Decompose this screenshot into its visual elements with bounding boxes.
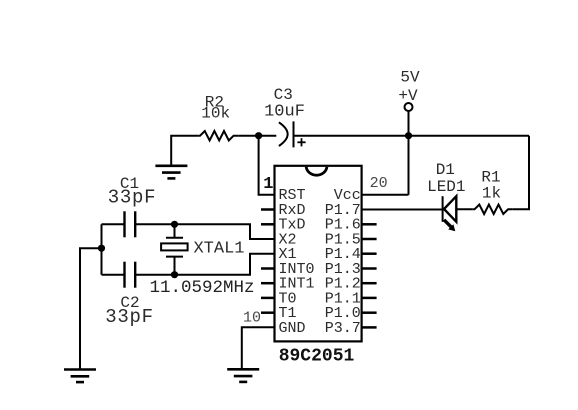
pin stub P1.2 xyxy=(362,282,377,285)
pin stub P1.3 xyxy=(362,267,377,270)
ground (below R2 left wire) xyxy=(155,166,187,179)
pin stub P1.5 xyxy=(362,238,377,241)
capacitor C1 xyxy=(125,211,136,237)
svg-text:5V: 5V xyxy=(400,68,420,86)
pin stub P1.0 xyxy=(362,311,377,314)
svg-text:89C2051: 89C2051 xyxy=(279,346,355,366)
node junction (crystal bottom) xyxy=(171,271,178,278)
C3 plus polarity mark xyxy=(297,138,305,146)
pin stub T0 xyxy=(261,297,275,300)
ground (below pin 10) xyxy=(227,369,259,382)
wire IC P1.7 to LED xyxy=(362,209,443,211)
wire C1 to X2 xyxy=(135,224,274,239)
svg-text:1: 1 xyxy=(263,175,273,194)
pin stub P1.1 xyxy=(362,297,377,300)
pin stub T1 xyxy=(261,311,275,314)
svg-text:+V: +V xyxy=(398,87,418,105)
LED D1 emission arrow xyxy=(444,220,455,231)
pin stub RxD xyxy=(261,208,275,211)
node junction (+V on top rail) xyxy=(405,132,412,139)
svg-text:33pF: 33pF xyxy=(105,306,153,328)
crystal XTAL1 xyxy=(161,224,188,274)
wire left rail xyxy=(101,224,103,274)
svg-text:1k: 1k xyxy=(482,185,501,203)
LED D1 cathode bar xyxy=(442,196,444,222)
svg-text:10uF: 10uF xyxy=(264,102,305,121)
svg-text:XTAL1: XTAL1 xyxy=(193,239,244,258)
pin stub P3.7 xyxy=(362,326,377,329)
resistor R2 xyxy=(198,131,238,140)
capacitor C2 xyxy=(125,262,136,288)
node junction (crystal top) xyxy=(171,221,178,228)
svg-text:20: 20 xyxy=(370,175,388,192)
wire to pin 1 RST xyxy=(259,136,275,195)
capacitor C3 straight plate xyxy=(293,121,295,147)
svg-text:11.0592MHz: 11.0592MHz xyxy=(149,278,254,298)
wire top rail left segment xyxy=(171,136,198,166)
pin stub P1.6 xyxy=(362,223,377,226)
wire right vertical rail xyxy=(513,136,529,210)
pin stub INT1 xyxy=(261,282,275,285)
wire LED to R1 xyxy=(456,208,473,210)
LED D1 triangle xyxy=(444,196,456,222)
wire +V down to Vcc xyxy=(408,111,410,195)
wire Vcc pin 20 xyxy=(362,194,409,196)
wire GND pin 10 to ground xyxy=(242,327,275,369)
resistor R1 xyxy=(473,205,513,214)
pin stub TxD xyxy=(261,223,275,226)
ground (left) xyxy=(64,370,96,383)
power terminal +V circle xyxy=(405,103,413,111)
wire rail to left ground xyxy=(80,248,102,369)
IC U1 89C2051 body xyxy=(275,166,362,342)
crystal section: top branch wire left xyxy=(102,223,125,225)
pin stub P1.4 xyxy=(362,252,377,255)
capacitor C3 curved plate xyxy=(279,122,288,146)
IC notch xyxy=(306,167,327,175)
pin stub INT0 xyxy=(261,267,275,270)
node junction (rail to ground) xyxy=(98,245,105,252)
wire C2 to X1 xyxy=(135,254,274,275)
svg-text:D1: D1 xyxy=(436,161,455,179)
svg-text:LED1: LED1 xyxy=(427,178,465,196)
svg-text:10k: 10k xyxy=(201,105,230,123)
svg-text:C3: C3 xyxy=(274,86,293,104)
svg-text:P3.7: P3.7 xyxy=(325,320,361,337)
wire bottom branch left xyxy=(102,274,125,276)
svg-text:33pF: 33pF xyxy=(108,186,156,208)
wire R2 to C3 xyxy=(238,135,276,137)
node junction (pin1 branch) xyxy=(255,132,262,139)
svg-text:GND: GND xyxy=(279,320,306,337)
svg-text:10: 10 xyxy=(243,310,261,327)
wire C3 to right corner xyxy=(294,135,530,137)
